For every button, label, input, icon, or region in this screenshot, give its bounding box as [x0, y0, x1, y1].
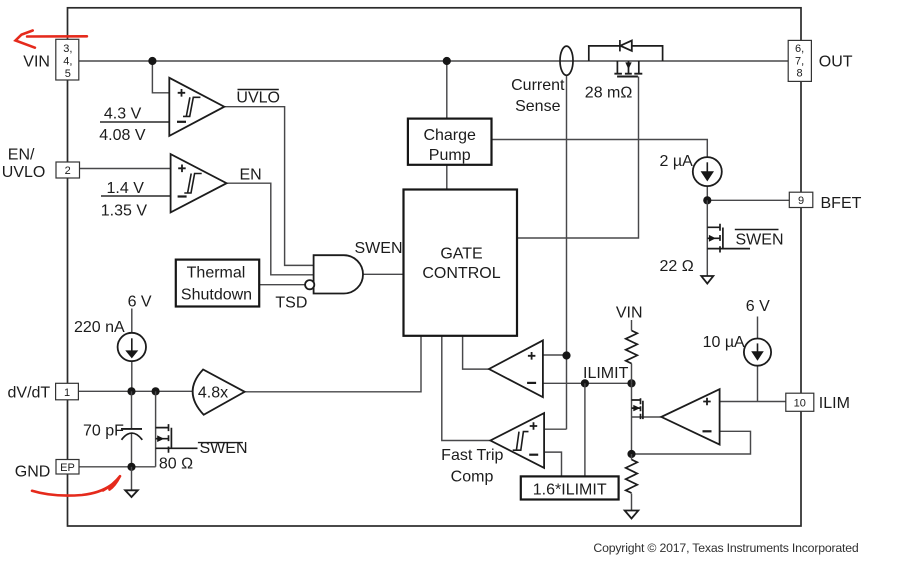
wire GND EP pin to FET source	[79, 466, 156, 468]
1.6*ILIMIT reference block	[521, 476, 619, 499]
label 1.4 V threshold	[101, 180, 148, 219]
svg-text:BFET: BFET	[821, 195, 862, 212]
svg-text:5: 5	[65, 68, 71, 80]
svg-text:ILIMIT: ILIMIT	[583, 365, 629, 382]
svg-text:4.8x: 4.8x	[198, 385, 228, 402]
wire UVLO comparator output to AND gate	[224, 107, 313, 266]
node dV/dT capacitor junction	[127, 387, 135, 395]
capacitor C1 70pF	[121, 429, 142, 440]
wire fast trip comparator output to GATE CONTROL	[442, 336, 491, 441]
IC boundary border	[68, 8, 802, 526]
svg-text:Pump: Pump	[429, 147, 471, 164]
wire resistor RIL1 to ILIMIT node	[631, 364, 633, 384]
wire ILIM comparator + input to pin 10	[720, 401, 786, 403]
wire ILIM comparator output to FET gate	[632, 416, 662, 418]
ground below Q2	[701, 276, 713, 284]
svg-text:6 V: 6 V	[128, 294, 152, 311]
pass FET Q1 with body diode	[589, 40, 663, 77]
svg-text:3,: 3,	[63, 43, 72, 55]
op-amp U6 ILIM amplifier	[661, 389, 719, 444]
svg-text:EN: EN	[240, 167, 262, 184]
wire 1.4V reference to EN comparator - input	[101, 195, 171, 197]
wire UVLO comparator + input tap	[152, 61, 169, 93]
current source I3 10uA	[744, 339, 771, 366]
svg-text:EP: EP	[60, 462, 75, 474]
transistor Q3 current limit FET	[632, 398, 643, 419]
svg-text:4.08 V: 4.08 V	[99, 127, 146, 144]
wire fast trip comparator + input	[544, 428, 566, 430]
svg-text:1.35 V: 1.35 V	[101, 202, 148, 219]
svg-text:6 V: 6 V	[746, 298, 770, 315]
svg-text:9: 9	[798, 195, 804, 207]
label SWEN with overline (BFET)	[735, 230, 784, 249]
svg-text:Fast Trip: Fast Trip	[441, 447, 503, 464]
svg-text:Current: Current	[511, 77, 565, 94]
svg-text:ILIM: ILIM	[819, 395, 850, 412]
svg-text:SWEN: SWEN	[736, 231, 784, 248]
svg-text:7,: 7,	[795, 55, 804, 67]
svg-text:SWEN: SWEN	[355, 240, 403, 257]
wire 4.3V reference to UVLO comparator - input	[100, 121, 169, 123]
svg-text:22 Ω: 22 Ω	[660, 258, 694, 275]
svg-text:1: 1	[64, 387, 70, 399]
svg-text:2: 2	[65, 165, 71, 177]
wire 6V to 10uA source to ILIM wire	[757, 317, 759, 402]
wire VIN to resistor RIL1	[631, 320, 633, 331]
wire dV/dT pin to 4.8x amplifier	[78, 390, 193, 392]
ground below RIL2	[625, 511, 639, 519]
wire 4.8x output to GATE CONTROL	[245, 336, 421, 392]
node ILIMIT tap to 1.6x reference	[581, 379, 589, 387]
svg-text:Charge: Charge	[423, 127, 476, 144]
svg-text:10 µA: 10 µA	[703, 334, 745, 351]
svg-text:Shutdown: Shutdown	[181, 287, 252, 304]
wire BFET node to pin 9	[707, 199, 789, 201]
wire ILIMIT node to 1.6*ILIMIT box	[584, 383, 586, 476]
pin EN/UVLO label	[2, 146, 46, 181]
svg-text:EN/: EN/	[8, 146, 35, 163]
svg-text:dV/dT: dV/dT	[8, 385, 51, 402]
svg-text:GATE: GATE	[440, 245, 482, 262]
transistor Q4 dV/dT discharge SWEN	[156, 391, 198, 467]
AND gate U3	[305, 255, 363, 293]
pin GND box EP	[56, 460, 79, 475]
svg-text:6,: 6,	[795, 43, 804, 55]
node current sense to comparator	[562, 351, 570, 359]
op-amp U2 EN comparator	[171, 154, 227, 212]
svg-text:Sense: Sense	[515, 98, 560, 115]
svg-text:OUT: OUT	[819, 53, 853, 70]
wire charge pump to VIN rail	[446, 61, 448, 119]
wire feedback ILIM comparator - input	[632, 431, 751, 454]
red annotation arrow top left	[16, 31, 87, 48]
wire dV/dT node to capacitor C1	[131, 391, 133, 428]
wire current sense line	[566, 75, 568, 430]
svg-text:VIN: VIN	[616, 305, 643, 322]
red annotation arrow bottom left	[32, 476, 120, 495]
label fast trip comp	[441, 447, 503, 485]
svg-text:Copyright © 2017, Texas Instru: Copyright © 2017, Texas Instruments Inco…	[593, 541, 858, 555]
wire 6V to 220nA source	[131, 309, 133, 333]
node charge pump tap on VIN rail	[443, 57, 451, 65]
wire to lower resistor RIL2	[631, 454, 633, 460]
svg-text:220 nA: 220 nA	[74, 319, 125, 336]
svg-text:1.6*ILIMIT: 1.6*ILIMIT	[533, 481, 607, 498]
pin EN/UVLO box 2	[56, 162, 80, 178]
wire EN/UVLO pin to EN comparator + input	[80, 168, 171, 170]
op-amp U4 current limit comparator	[489, 340, 543, 397]
node VIN rail junction	[148, 57, 156, 65]
svg-text:10: 10	[794, 398, 806, 410]
svg-text:8: 8	[797, 68, 803, 80]
wire current limit comparator output to GATE CONTROL	[463, 336, 489, 369]
node ILIMIT	[627, 379, 635, 387]
wire current limit comparator + input	[543, 354, 567, 356]
pin VIN box 3,4,5	[56, 39, 79, 80]
wire GATE CONTROL to pass FET gate	[517, 77, 639, 239]
svg-text:UVLO: UVLO	[236, 89, 280, 106]
svg-text:CONTROL: CONTROL	[422, 265, 500, 282]
node GND junction	[127, 463, 135, 471]
wire VIN rail	[79, 60, 789, 62]
wire 2uA source to BFET node	[706, 185, 708, 200]
wire current limit comparator - input to ILIMIT node	[543, 382, 632, 384]
net UVLO label with overline	[236, 89, 280, 106]
svg-text:28 mΩ: 28 mΩ	[585, 84, 633, 101]
charge pump block	[408, 119, 492, 165]
label current sense	[511, 77, 565, 115]
wire ILIM FET rail	[631, 383, 633, 454]
node dV/dT FET junction	[152, 387, 160, 395]
svg-text:TSD: TSD	[275, 294, 307, 311]
node BFET	[703, 196, 711, 204]
label SWEN with overline (dV/dT)	[198, 440, 248, 457]
svg-text:UVLO: UVLO	[2, 164, 46, 181]
wire TSD	[259, 284, 305, 286]
svg-text:Comp: Comp	[451, 468, 494, 485]
svg-text:4,: 4,	[63, 55, 72, 67]
wire 220nA source to dV/dT node	[131, 361, 133, 391]
wire EN comparator output to AND gate	[227, 183, 314, 275]
svg-text:VIN: VIN	[23, 54, 50, 71]
resistor RIL2 lower	[626, 460, 638, 494]
wire fast trip comparator - input to 1.6*ILIMIT box	[544, 452, 561, 476]
svg-text:2 µA: 2 µA	[660, 153, 694, 170]
svg-text:70 pF: 70 pF	[83, 423, 124, 440]
svg-text:Thermal: Thermal	[187, 265, 246, 282]
svg-text:80 Ω: 80 Ω	[159, 456, 193, 473]
pin dV/dT box 1	[56, 383, 79, 400]
wire SWEN AND gate output to GATE CONTROL	[363, 273, 404, 275]
pin ILIM box 10	[786, 393, 814, 411]
wire GND node to ground symbol	[131, 467, 133, 491]
node feedback junction	[627, 450, 635, 458]
label 4.3 V threshold	[99, 106, 146, 144]
amplifier 4.8x	[193, 370, 245, 415]
gate control block	[404, 190, 518, 336]
op-amp U1 UVLO comparator	[169, 78, 224, 136]
transistor Q2 BFET pulldown SWEN	[707, 200, 750, 276]
svg-text:1.4 V: 1.4 V	[107, 180, 145, 197]
wire charge pump to 2uA current source	[492, 140, 708, 158]
current source I2 220nA	[118, 333, 146, 361]
pin OUT box 6,7,8	[788, 40, 811, 81]
thermal shutdown block	[176, 260, 259, 307]
svg-text:4.3 V: 4.3 V	[104, 106, 142, 123]
wire lower resistor to ground	[631, 494, 633, 511]
current source I1 2uA	[693, 157, 722, 186]
pin BFET box 9	[789, 192, 813, 207]
resistor RIL1 from VIN	[626, 331, 638, 364]
wire capacitor C1 to ground node	[131, 434, 133, 467]
op-amp U5 fast trip comparator	[490, 413, 544, 468]
wire charge pump to gate control	[446, 165, 448, 190]
current sense ellipse	[560, 46, 573, 75]
ground below C1	[125, 490, 138, 497]
svg-text:GND: GND	[15, 464, 51, 481]
